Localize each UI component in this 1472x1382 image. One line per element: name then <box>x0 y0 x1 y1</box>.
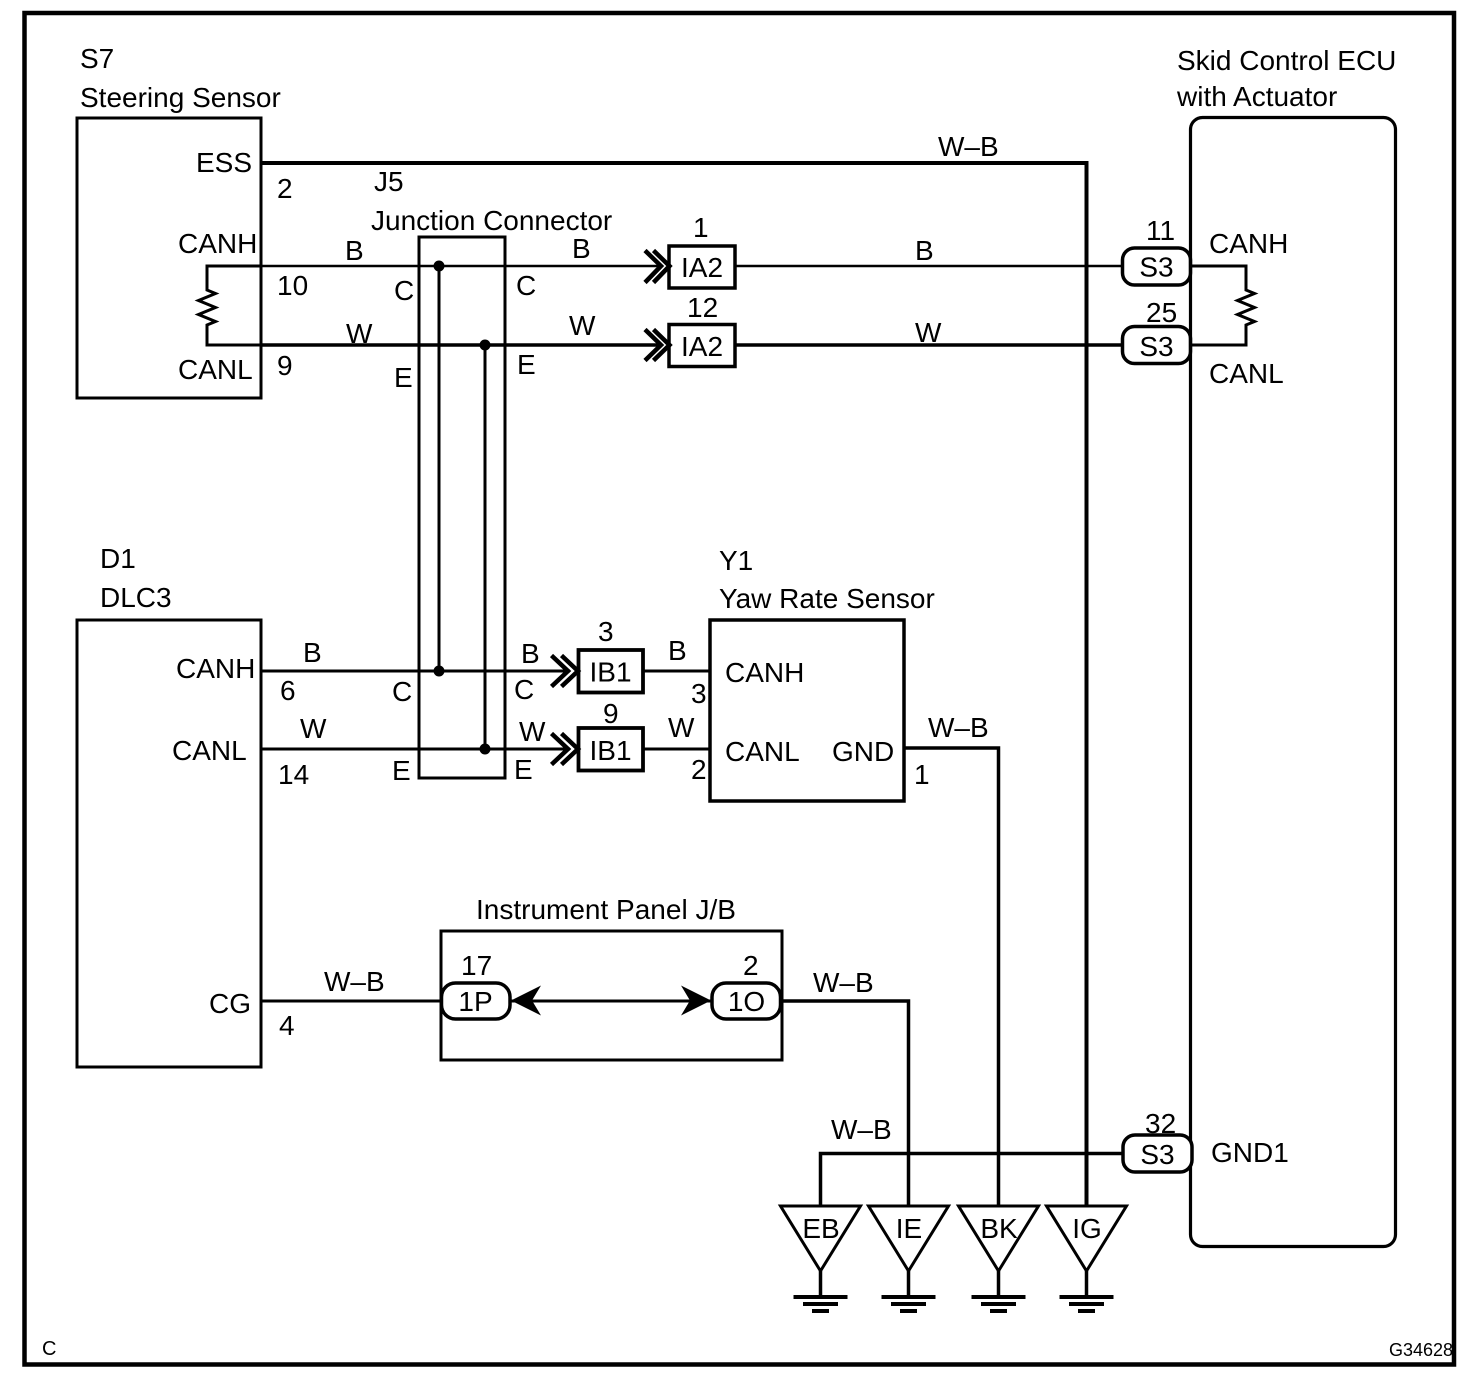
wire CANH from S7 to IA2 <box>261 265 662 268</box>
svg-text:Y1: Y1 <box>719 545 753 576</box>
svg-text:9: 9 <box>277 350 293 381</box>
svg-text:EB: EB <box>802 1213 839 1244</box>
connector arrow into IB1 pin 3 <box>552 656 579 687</box>
svg-text:Instrument Panel J/B: Instrument Panel J/B <box>476 894 736 925</box>
ground EB <box>781 1206 861 1311</box>
svg-text:W: W <box>519 716 546 747</box>
svg-text:BK: BK <box>980 1213 1018 1244</box>
svg-text:B: B <box>303 637 322 668</box>
svg-text:W–B: W–B <box>831 1114 892 1145</box>
wire W-B from 1O to IE ground <box>781 1001 909 1206</box>
wire B from IA2 to S3 pin 11 <box>734 265 1122 268</box>
junction dot CANL S7 <box>480 340 491 351</box>
yaw rate sensor Y1 label <box>719 545 935 614</box>
svg-text:E: E <box>514 754 533 785</box>
yaw rate sensor Y1 box <box>710 620 904 801</box>
svg-text:B: B <box>521 638 540 669</box>
svg-text:CANH: CANH <box>1209 228 1288 259</box>
connector S3 pin 25 <box>1123 297 1191 364</box>
svg-text:GND: GND <box>832 736 894 767</box>
arrow pointing right toward 1O <box>681 986 711 1016</box>
svg-text:W: W <box>915 317 942 348</box>
svg-text:with Actuator: with Actuator <box>1176 81 1337 112</box>
svg-text:W–B: W–B <box>324 966 385 997</box>
wire ESS W-B from S7 to IG ground <box>261 163 1087 1206</box>
svg-text:IE: IE <box>896 1213 922 1244</box>
svg-text:14: 14 <box>278 759 309 790</box>
svg-text:25: 25 <box>1146 297 1177 328</box>
svg-text:CANL: CANL <box>172 735 247 766</box>
ground IE <box>869 1206 949 1311</box>
svg-text:W: W <box>668 712 695 743</box>
svg-text:CANH: CANH <box>725 657 804 688</box>
svg-text:C: C <box>42 1338 56 1360</box>
connector arrow into IA2 pin 12 <box>645 330 670 361</box>
svg-text:W: W <box>346 318 373 349</box>
wire CANH from D1 to IB1 <box>261 670 570 673</box>
svg-text:ESS: ESS <box>196 147 252 178</box>
ground BK <box>959 1206 1039 1311</box>
svg-text:E: E <box>392 755 411 786</box>
svg-text:CANL: CANL <box>178 354 253 385</box>
connector IA2 pin 12 <box>669 292 735 367</box>
svg-text:IG: IG <box>1072 1213 1102 1244</box>
svg-text:CG: CG <box>209 988 251 1019</box>
steering sensor S7 box <box>77 118 261 398</box>
svg-text:GND1: GND1 <box>1211 1137 1289 1168</box>
svg-text:B: B <box>572 233 591 264</box>
svg-text:10: 10 <box>277 270 308 301</box>
svg-text:Skid Control ECU: Skid Control ECU <box>1177 45 1396 76</box>
svg-text:C: C <box>514 674 534 705</box>
svg-text:CANH: CANH <box>178 228 257 259</box>
junction dot CANH S7 <box>434 261 445 272</box>
svg-text:S7: S7 <box>80 43 114 74</box>
svg-text:B: B <box>915 235 934 266</box>
svg-text:C: C <box>394 275 414 306</box>
wire W-B from Y1 GND to BK ground <box>904 748 999 1206</box>
steering sensor S7 label <box>80 43 281 113</box>
svg-text:2: 2 <box>277 173 293 204</box>
svg-text:Yaw Rate Sensor: Yaw Rate Sensor <box>719 583 935 614</box>
wire CANL from S7 to IA2 <box>261 343 662 347</box>
connector arrow into IA2 pin 1 <box>645 251 670 283</box>
svg-text:IA2: IA2 <box>681 252 723 283</box>
svg-text:S3: S3 <box>1139 252 1173 283</box>
ground IG <box>1047 1206 1127 1311</box>
svg-text:9: 9 <box>603 698 619 729</box>
instrument panel J/B box <box>441 931 782 1060</box>
svg-text:E: E <box>517 349 536 380</box>
svg-text:CANL: CANL <box>725 736 800 767</box>
wire CANL from D1 to IB1 <box>261 748 570 751</box>
svg-text:B: B <box>668 635 687 666</box>
svg-text:IA2: IA2 <box>681 331 723 362</box>
connector 1P pin 17 <box>442 950 511 1019</box>
wire B from IB1 to Y1 <box>642 670 710 673</box>
svg-text:3: 3 <box>598 616 614 647</box>
svg-text:W–B: W–B <box>928 712 989 743</box>
svg-text:2: 2 <box>691 754 707 785</box>
junction dot CANH D1 <box>434 666 445 677</box>
connector arrow into IB1 pin 9 <box>552 734 579 765</box>
svg-text:D1: D1 <box>100 543 136 574</box>
svg-text:IB1: IB1 <box>589 735 631 766</box>
svg-text:E: E <box>394 362 413 393</box>
svg-text:17: 17 <box>461 950 492 981</box>
svg-text:1P: 1P <box>458 986 492 1017</box>
svg-text:4: 4 <box>279 1010 295 1041</box>
connector S3 pin 11 <box>1123 215 1191 285</box>
connector IB1 pin 3 <box>579 616 644 693</box>
svg-text:IB1: IB1 <box>589 657 631 688</box>
connector IA2 pin 1 <box>669 212 735 288</box>
junction connector J5 label <box>371 166 612 236</box>
svg-text:CANL: CANL <box>1209 358 1284 389</box>
junction dot CANL D1 <box>480 744 491 755</box>
connector S3 pin 32 <box>1123 1108 1192 1172</box>
svg-text:W–B: W–B <box>813 967 874 998</box>
svg-text:C: C <box>516 270 536 301</box>
J5 internal bus wire (CANL) <box>484 345 487 749</box>
svg-text:W: W <box>300 713 327 744</box>
skid control ECU label <box>1176 45 1396 112</box>
svg-text:CANH: CANH <box>176 653 255 684</box>
wire W from IA2 to S3 pin 25 <box>734 343 1122 347</box>
svg-text:2: 2 <box>743 950 759 981</box>
svg-text:G34628: G34628 <box>1389 1340 1453 1360</box>
svg-text:W: W <box>569 310 596 341</box>
J5 internal bus wire (CANH) <box>438 266 441 671</box>
svg-text:3: 3 <box>691 678 707 709</box>
svg-text:1: 1 <box>914 759 930 790</box>
svg-text:1O: 1O <box>728 986 765 1017</box>
arrow pointing left toward 1P <box>511 986 541 1016</box>
wire CG W-B from D1 to 1P <box>261 1000 441 1003</box>
terminating resistor inside ECU <box>1191 266 1255 345</box>
ground bus wire W-B from EB to S3 pin 32 <box>821 1154 1124 1207</box>
svg-text:J5: J5 <box>374 166 404 197</box>
svg-text:Steering Sensor: Steering Sensor <box>80 82 281 113</box>
svg-text:S3: S3 <box>1139 331 1173 362</box>
svg-text:B: B <box>345 235 364 266</box>
svg-text:6: 6 <box>280 675 296 706</box>
internal wire between 1P and 1O <box>510 1000 712 1003</box>
wire W from IB1 to Y1 <box>642 748 710 751</box>
svg-text:W–B: W–B <box>938 131 999 162</box>
svg-text:12: 12 <box>687 292 718 323</box>
DLC3 D1 box <box>77 620 261 1067</box>
svg-text:DLC3: DLC3 <box>100 582 172 613</box>
DLC3 D1 label <box>100 543 172 613</box>
svg-text:1: 1 <box>693 212 709 243</box>
connector 1O pin 2 <box>712 950 781 1019</box>
svg-text:C: C <box>392 676 412 707</box>
svg-text:11: 11 <box>1146 215 1175 246</box>
svg-text:S3: S3 <box>1140 1139 1174 1170</box>
skid control ECU box <box>1191 118 1396 1247</box>
terminating resistor inside S7 <box>199 266 262 345</box>
svg-text:Junction Connector: Junction Connector <box>371 205 612 236</box>
junction connector J5 box <box>419 237 505 778</box>
connector IB1 pin 9 <box>579 698 644 771</box>
